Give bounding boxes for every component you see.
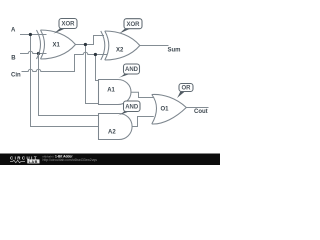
svg-text:X2: X2 (116, 48, 124, 54)
svg-text:B: B (11, 56, 16, 62)
svg-text:Sum: Sum (168, 47, 181, 53)
svg-text:AND: AND (125, 104, 139, 110)
svg-text:A2: A2 (108, 129, 116, 135)
svg-text:LAB: LAB (29, 160, 38, 164)
svg-text:XOR: XOR (61, 22, 75, 28)
svg-text:OR: OR (182, 86, 192, 92)
svg-text:Cout: Cout (194, 109, 208, 115)
svg-text:Cin: Cin (11, 73, 21, 79)
svg-text:AND: AND (125, 67, 139, 73)
svg-text:XOR: XOR (126, 22, 140, 28)
svg-text:A: A (11, 27, 16, 33)
svg-text:X1: X1 (53, 42, 61, 48)
svg-text:O1: O1 (161, 107, 170, 113)
svg-text:A1: A1 (107, 87, 115, 93)
svg-text:http://circuitlab.com/c6ba433x: http://circuitlab.com/c6ba433xw2vqs (43, 158, 98, 162)
